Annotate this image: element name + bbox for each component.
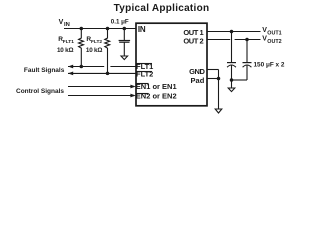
node junction dot OUT2/C2 <box>245 38 249 42</box>
svg-text:OUT1: OUT1 <box>267 30 281 36</box>
node junction dot cap rail <box>230 78 234 82</box>
svg-text:V: V <box>59 19 64 26</box>
node junction dot VIN/RFLT2 <box>106 27 110 31</box>
node VOUT2 label <box>262 36 281 45</box>
ground (bypass cap) <box>121 56 128 60</box>
wire Pad pin <box>207 78 219 80</box>
ground (GND pad) <box>215 109 222 113</box>
wire FLT1 (with crossover gap) <box>68 66 136 68</box>
capacitor C2 150uF <box>246 40 248 63</box>
svg-text:Typical Application: Typical Application <box>114 3 210 14</box>
arrowhead EN2 control input <box>130 94 135 98</box>
svg-text:IN: IN <box>64 22 70 28</box>
svg-text:Pad: Pad <box>191 76 205 85</box>
node junction dot GND/Pad <box>217 77 221 81</box>
wire EN1 <box>68 86 131 88</box>
wire GND pin <box>207 69 219 71</box>
svg-text:FLT2: FLT2 <box>91 39 102 45</box>
wire OUT1 <box>207 31 261 33</box>
svg-text:150 μF x 2: 150 μF x 2 <box>254 62 285 69</box>
arrowhead FLT2 fault output <box>68 72 73 76</box>
arrowhead FLT1 fault output <box>68 65 73 69</box>
resistor RFLT1 <box>79 29 84 67</box>
svg-text:IN: IN <box>138 25 146 34</box>
arrowhead EN1 control input <box>130 85 135 89</box>
IC U1 box <box>136 23 207 106</box>
label RFLT2 value <box>86 36 103 54</box>
label RFLT1 value <box>57 36 74 54</box>
svg-text:Control Signals: Control Signals <box>16 88 64 95</box>
svg-text:FLT1: FLT1 <box>63 39 74 45</box>
node junction dot OUT1/C1 <box>230 30 234 34</box>
wire FLT2 <box>68 72 136 74</box>
svg-text:OUT2: OUT2 <box>267 39 281 45</box>
svg-text:FLT2: FLT2 <box>136 69 153 78</box>
node junction dot RFLT2/FLT2 <box>106 72 110 76</box>
svg-text:10 kΩ: 10 kΩ <box>57 47 73 54</box>
node junction dot VIN/RFLT1 <box>80 27 84 31</box>
capacitor C bypass <box>123 29 125 41</box>
svg-text:OUT 2: OUT 2 <box>183 36 203 45</box>
wire GND/Pad down <box>218 70 220 110</box>
node VOUT1 label <box>262 27 281 36</box>
svg-text:0.1 μF: 0.1 μF <box>111 18 129 25</box>
capacitor C1 150uF <box>231 32 233 63</box>
node junction dot VIN/C bypass <box>123 27 127 31</box>
svg-text:10 kΩ: 10 kΩ <box>86 47 102 54</box>
wire OUT2 (with crossover gap) <box>207 39 261 41</box>
wire VIN rail <box>64 28 136 30</box>
node VIN label <box>59 19 70 28</box>
node junction dot RFLT1/FLT1 <box>80 65 84 69</box>
wire EN2 <box>68 95 131 97</box>
svg-text:GND: GND <box>189 67 205 76</box>
wire cap ground rail <box>232 79 248 81</box>
ground (output caps) <box>231 80 233 88</box>
svg-text:Fault Signals: Fault Signals <box>24 67 65 74</box>
resistor RFLT2 <box>105 29 110 74</box>
